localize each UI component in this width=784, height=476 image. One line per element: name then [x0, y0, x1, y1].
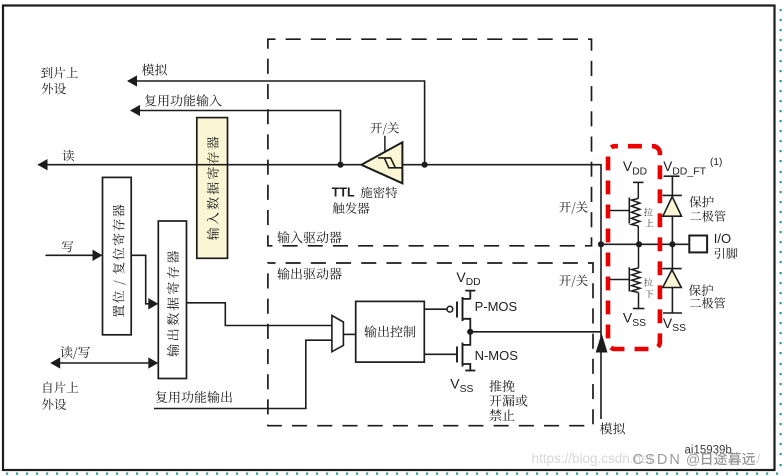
svg-text:VSS: VSS — [663, 315, 686, 334]
node dot pmos-nmos — [467, 329, 473, 335]
label 模拟 bottom — [600, 423, 625, 435]
label 置位/复位寄存器 rotated — [112, 205, 125, 318]
wire analog top — [128, 81, 425, 165]
schmitt hysteresis mark — [378, 158, 402, 168]
label 输入数据寄存器 rotated — [207, 137, 219, 240]
vss bar pulldown — [633, 308, 645, 310]
label 施密特 — [361, 187, 398, 199]
wire read/schmitt net — [38, 165, 601, 419]
svg-text:CSDN: CSDN — [633, 452, 683, 468]
vdd rail pmos — [463, 291, 476, 300]
label 输入驱动器 — [277, 231, 341, 243]
svg-text:P-MOS: P-MOS — [475, 299, 518, 314]
node dot pullres — [636, 241, 642, 247]
label 自片上 — [44, 382, 79, 394]
transistor Q2 N-MOS — [424, 353, 457, 355]
output control box — [356, 301, 425, 362]
label 保护 bottom — [689, 284, 713, 296]
svg-text:VSS: VSS — [450, 376, 473, 395]
wire output stage — [470, 331, 601, 333]
label 引脚 — [715, 248, 738, 259]
label 读 — [62, 150, 74, 162]
io pin square — [689, 236, 707, 253]
transistor Q1 P-MOS — [424, 308, 447, 310]
wire setreset to odr — [131, 255, 149, 303]
node dot diode — [669, 241, 675, 247]
node dot schmitt in — [422, 162, 428, 168]
label 开/关 input drv — [559, 201, 587, 214]
label 拉下 — [644, 278, 653, 287]
register set/reset box — [103, 177, 132, 334]
label 外设 bottom — [42, 398, 66, 410]
label 复用功能输出 — [156, 391, 232, 403]
watermark username — [702, 452, 755, 465]
label 输出驱动器 — [277, 268, 341, 280]
label 二极管 top — [690, 210, 725, 221]
label 到片上 — [41, 67, 78, 79]
label 开漏或 — [490, 395, 528, 407]
label 推挽 — [489, 380, 514, 392]
mux multiplexer — [332, 316, 344, 352]
resistor R-pulldown — [638, 244, 640, 268]
wire mux out — [343, 333, 355, 335]
resistor R-pullup — [637, 182, 639, 198]
arrow alt input — [130, 105, 140, 116]
wire odr to mux — [187, 303, 332, 326]
svg-text:TTL: TTL — [332, 186, 355, 200]
diode column wire — [671, 177, 673, 313]
wire alt-func output — [154, 340, 332, 408]
output driver dashed box — [268, 263, 593, 426]
label 输出数据寄存器 rotated — [167, 251, 179, 357]
protection diode D1 — [663, 194, 682, 196]
red highlight dashed box — [608, 146, 660, 349]
label 写 — [62, 241, 73, 252]
arrow read left — [38, 159, 48, 170]
svg-text:VDD_FT(1): VDD_FT(1) — [663, 157, 722, 178]
label 二极管 bottom — [690, 297, 725, 308]
arrow write — [93, 250, 103, 261]
label 拉上 — [644, 208, 653, 217]
vss rail nmos — [465, 370, 475, 372]
wire alt-func input — [131, 111, 341, 165]
label 读/写 — [60, 346, 90, 359]
svg-text:N-MOS: N-MOS — [475, 348, 519, 363]
vddft rail bar — [664, 175, 680, 177]
node dot schmitt out — [337, 162, 343, 168]
node dot net-io — [598, 241, 604, 247]
label 开/关 trigger — [370, 122, 398, 135]
svg-text:/: / — [757, 451, 761, 466]
arrow rw right — [148, 357, 158, 368]
input driver dashed box — [268, 39, 592, 246]
arrow up output — [596, 333, 608, 352]
pullup switch bar — [628, 198, 630, 224]
protection diode D2 — [662, 268, 681, 270]
svg-text:@: @ — [686, 452, 700, 468]
pulldown switch bar — [628, 267, 630, 291]
pullup switch lead — [610, 210, 630, 212]
arrow rw left — [50, 357, 60, 368]
label 触发器 — [333, 202, 370, 214]
label 禁止 — [489, 409, 514, 421]
label 开/关 output drv — [559, 275, 587, 288]
label 模拟 top — [142, 64, 167, 76]
arrow analog — [127, 75, 137, 86]
label 输出控制 — [364, 325, 415, 337]
wire read-write — [59, 362, 149, 364]
schmitt trigger U1 — [361, 142, 402, 183]
wire write — [46, 254, 94, 256]
arrow into odr — [148, 298, 158, 309]
label 外设 top — [42, 83, 66, 95]
wire io pin line — [601, 243, 688, 245]
pulldown switch lead — [610, 279, 630, 281]
register input-data box — [197, 118, 228, 259]
svg-text:VSS: VSS — [623, 310, 646, 329]
label 复用功能输入 — [145, 94, 222, 106]
register output-data box — [158, 221, 186, 379]
schmitt enable pointer — [384, 136, 386, 152]
svg-text:I/O: I/O — [714, 231, 731, 246]
label 保护 top — [689, 196, 713, 208]
vss bar diode — [663, 312, 682, 314]
svg-text:VDD: VDD — [456, 269, 480, 288]
svg-text:VDD: VDD — [623, 158, 647, 177]
vdd bar pullup — [633, 181, 644, 183]
